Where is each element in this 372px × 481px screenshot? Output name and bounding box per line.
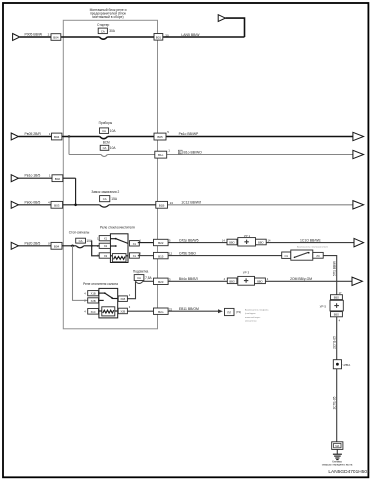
svg-text:1: 1: [49, 174, 51, 178]
svg-text:ЧЛ5А: ЧЛ5А: [343, 363, 351, 367]
svg-text:ВВО: ВВО: [334, 297, 339, 300]
pin B23 row7: [154, 278, 169, 284]
svg-text:Реле отопителя салона: Реле отопителя салона: [83, 282, 118, 286]
svg-text:2СП1-05: 2СП1-05: [332, 336, 336, 349]
svg-text:1: 1: [168, 148, 170, 152]
svg-text:В22: В22: [158, 241, 164, 245]
connector arrow out-top: [218, 15, 225, 22]
svg-text:В02: В02: [55, 177, 61, 181]
svg-text:1: 1: [49, 132, 51, 136]
svg-text:4: 4: [267, 277, 269, 281]
pin row6 left: [51, 242, 62, 249]
svg-text:В03: В03: [54, 203, 60, 207]
svg-text:ВВО: ВВО: [229, 279, 234, 283]
svg-text:Стоп-сигналы: Стоп-сигналы: [69, 231, 90, 235]
svg-text:Х1В: Х1В: [120, 297, 125, 301]
svg-text:В04: В04: [53, 36, 59, 40]
relay K2 right pin X2B: [118, 308, 127, 314]
wire row6a to UR1: [168, 242, 227, 244]
svg-text:ВВО: ВВО: [257, 279, 262, 283]
svg-text:В1о: В1о: [158, 153, 164, 157]
svg-text:В01: В01: [156, 35, 162, 39]
svg-text:Выключатель плафона: Выключатель плафона: [245, 308, 269, 311]
pin B04 row2: [52, 133, 62, 140]
svg-text:С#5Е 5/ВО: С#5Е 5/ВО: [179, 251, 196, 255]
svg-text:0: 0: [48, 241, 50, 245]
connector arrow in5: [11, 201, 18, 208]
connector arrow in2: [11, 133, 18, 140]
svg-text:Х2В: Х2В: [91, 299, 96, 303]
relay K2 right pin X1B: [118, 296, 127, 302]
node: row6 stop signal feed wire: [18, 245, 100, 247]
relay K1 pin X2: [99, 243, 110, 248]
wire stub to ground: [336, 449, 338, 454]
svg-text:Подсветка: Подсветка: [133, 270, 149, 274]
svg-text:10А: 10А: [110, 146, 117, 150]
svg-text:5: 5: [167, 130, 169, 134]
svg-text:5: 5: [169, 239, 171, 243]
svg-text:(свободно-: (свободно-: [245, 313, 256, 315]
svg-text:LАN5 ВВ/W: LАN5 ВВ/W: [181, 33, 200, 37]
wire row8 to lamp ref: [168, 310, 218, 312]
node: row4 feed wire: [18, 178, 75, 205]
wire grey feed to relay K2 coil: [73, 246, 88, 301]
svg-text:В1В: В1В: [159, 203, 165, 207]
fuse stop signals 10A: [76, 238, 86, 243]
junction row6: [71, 245, 74, 248]
svg-text:30А: 30А: [109, 29, 116, 33]
svg-text:Стартер: Стартер: [97, 23, 109, 27]
svg-text:Реле стеклоочистителя: Реле стеклоочистителя: [100, 225, 135, 229]
connector arrow out2: [353, 132, 364, 140]
svg-text:С#2р ВВ/W5: С#2р ВВ/W5: [179, 238, 199, 242]
svg-text:4: 4: [224, 277, 226, 281]
svg-text:Выключатель стеклоочистителя: Выключатель стеклоочистителя: [297, 246, 328, 248]
svg-text:В15: В15: [158, 254, 164, 258]
svg-text:2СП1-05: 2СП1-05: [332, 396, 336, 409]
main vertical wire down: [336, 317, 338, 360]
svg-text:ВВО: ВВО: [258, 241, 263, 245]
svg-text:14: 14: [268, 239, 271, 243]
svg-text:Приборы: Приборы: [99, 121, 113, 125]
svg-text:«масса» переднего жгута: «масса» переднего жгута: [322, 463, 353, 467]
svg-text:ВВО: ВВО: [229, 241, 234, 245]
relay K1 right pin X1: [130, 241, 140, 246]
connector arrow out6a: [354, 238, 364, 246]
block title text: [90, 8, 127, 19]
svg-text:В23: В23: [158, 280, 164, 284]
svg-text:СА: СА: [102, 129, 106, 133]
pin B02 row4: [52, 175, 63, 182]
svg-text:Замок зажигания 2: Замок зажигания 2: [91, 190, 119, 194]
svg-text:4: 4: [339, 319, 341, 323]
wire relay K2 out1 L-shape: [127, 281, 135, 298]
svg-text:Х1: Х1: [104, 237, 108, 241]
svg-text:2ОМ ВВ/у-ОМ: 2ОМ ВВ/у-ОМ: [290, 277, 312, 281]
node: row1 starter feed wire: [20, 18, 245, 37]
svg-text:ВСМ: ВСМ: [103, 140, 110, 144]
svg-text:В05: В05: [157, 135, 163, 139]
node: row3 BCM wire: [69, 137, 353, 155]
svg-text:30: 30: [165, 33, 169, 37]
svg-text:СА: СА: [137, 276, 141, 280]
wiper switch S1: [282, 252, 291, 258]
lamp switch ref box: [225, 308, 235, 315]
svg-text:монтажный в сборе): монтажный в сборе): [92, 15, 123, 19]
wire fuse to edge pin: [143, 280, 154, 282]
svg-text:В04: В04: [54, 135, 60, 139]
svg-text:СА: СА: [103, 197, 107, 201]
relay K2 pin X2B: [88, 298, 99, 303]
wire relay K2 out2 row8: [127, 310, 153, 312]
svg-text:Х2: Х2: [104, 244, 108, 248]
svg-text:Р005 ВВ/W: Р005 ВВ/W: [25, 33, 43, 37]
relay K1 switch contact: [110, 238, 115, 240]
pin B2o row8: [154, 308, 169, 314]
wire relay K1 out2: [138, 255, 154, 257]
svg-text:5П1 ВВ/W: 5П1 ВВ/W: [332, 261, 336, 276]
svg-text:14: 14: [222, 239, 225, 243]
connector arrow out5: [353, 201, 364, 209]
wire label row3: [178, 150, 182, 154]
svg-text:Х2В: Х2В: [120, 309, 125, 313]
wire switch to down: [323, 256, 337, 295]
svg-text:навесной пере-: навесной пере-: [245, 316, 261, 319]
lamp switch caption: [245, 308, 269, 322]
svg-text:СА: СА: [79, 239, 83, 243]
node: row5 ignition lock wire: [18, 204, 353, 206]
junction row2: [68, 135, 71, 138]
svg-text:Рв0о 0В/5: Рв0о 0В/5: [25, 200, 41, 204]
connector arrow in4: [11, 175, 18, 182]
svg-text:10А: 10А: [110, 129, 117, 133]
svg-text:Х1С: Х1С: [91, 310, 96, 314]
pin B01 row1: [154, 34, 163, 41]
svg-text:ЕВ11 ВВ/ОМ: ЕВ11 ВВ/ОМ: [179, 307, 199, 311]
svg-text:УР 5: УР 5: [320, 305, 327, 309]
svg-text:1С1О ВВ/WЕ: 1С1О ВВ/WЕ: [300, 238, 321, 242]
relay K2 body: [99, 288, 118, 318]
svg-text:4: 4: [48, 200, 50, 204]
connector arrow in1: [13, 34, 20, 41]
relay K1 coil: [112, 254, 126, 262]
wire UR1 to edge: [266, 242, 354, 244]
connector arrow out3: [353, 150, 364, 158]
svg-text:В1о ВВ/WО: В1о ВВ/WО: [184, 150, 203, 154]
svg-text:ВВО: ВВО: [334, 314, 339, 317]
junction row5: [74, 204, 77, 207]
svg-text:Рв1о 1В/5: Рв1о 1В/5: [25, 174, 41, 178]
svg-text:В04: В04: [54, 244, 60, 248]
svg-text:СА: СА: [101, 29, 105, 33]
svg-text:Х1: Х1: [133, 254, 137, 258]
pin row5 right: [156, 201, 168, 208]
connector arrow out7: [352, 277, 362, 285]
svg-text:Е: Е: [179, 150, 181, 154]
relay K1 body: [110, 234, 128, 263]
wire row7 to UR3: [168, 280, 227, 282]
fuse illumination 7.5A: [134, 275, 144, 281]
svg-text:15А: 15А: [111, 197, 118, 201]
ground connector MA: [332, 442, 343, 450]
pin B1o row3: [155, 151, 167, 158]
wire row6b to switch: [168, 255, 282, 257]
svg-text:Рв20 2В/5: Рв20 2В/5: [25, 241, 41, 245]
pin B04 row1: [51, 34, 61, 41]
svg-text:ПЛ: ПЛ: [227, 310, 231, 314]
relay K1 right pin X2: [130, 253, 140, 258]
svg-text:LAN5GD4701H501: LAN5GD4701H501: [328, 469, 370, 475]
pin B05 row2: [154, 133, 166, 140]
wire to relay coil branch: [92, 241, 101, 256]
fuse/relay block body: [63, 20, 157, 329]
relay K2 coil: [102, 307, 115, 316]
svg-text:В2о: В2о: [158, 310, 164, 314]
relay K2 switch contact: [99, 292, 105, 294]
pin B15 row6b: [154, 252, 169, 258]
svg-text:2: 2: [48, 33, 50, 37]
pin B22 row6a: [154, 239, 169, 245]
relay K2 pin X1C: [88, 309, 99, 315]
relay K2 pin X1B: [88, 291, 99, 296]
svg-text:1С12 ВВ/WЛ: 1С12 ВВ/WЛ: [181, 201, 201, 205]
svg-text:Рв05 2В/R: Рв05 2В/R: [25, 132, 42, 136]
svg-text:Рв1о ВВ/WР: Рв1о ВВ/WР: [179, 132, 199, 136]
svg-text:УР 3: УР 3: [243, 271, 250, 275]
relay K1 pin X1: [99, 236, 110, 241]
svg-text:Х1В: Х1В: [91, 292, 96, 296]
svg-text:Х3: Х3: [104, 254, 108, 258]
svg-text:ключатель): ключатель): [245, 321, 257, 323]
svg-text:СА: СА: [103, 146, 107, 150]
svg-text:(73): (73): [236, 310, 241, 314]
svg-text:13: 13: [170, 201, 174, 205]
svg-text:7,5А: 7,5А: [145, 276, 152, 280]
ground symbol: [333, 454, 342, 459]
relay K1 pin X3: [99, 253, 110, 258]
wire UR3 to edge: [265, 280, 352, 282]
svg-text:ЛЗ: ЛЗ: [316, 254, 320, 258]
node: row2 instruments wire: [18, 136, 353, 138]
splice node: [333, 360, 341, 369]
svg-text:О1: О1: [284, 254, 288, 258]
pin row5 left: [51, 201, 63, 208]
connector arrow in6: [11, 242, 18, 249]
svg-text:В#4о ВВ/ВЛ: В#4о ВВ/ВЛ: [179, 277, 198, 281]
svg-text:Х1: Х1: [133, 242, 137, 246]
svg-text:МА: МА: [335, 444, 339, 448]
wire relay K1 out1: [138, 242, 154, 244]
